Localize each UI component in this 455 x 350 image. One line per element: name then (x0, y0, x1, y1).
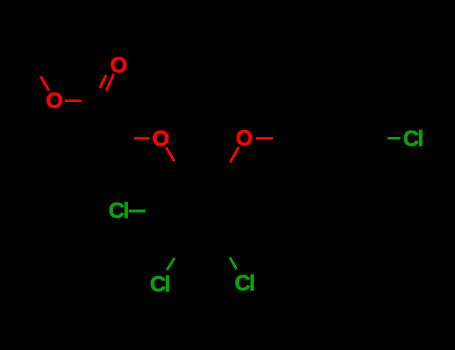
svg-text:Cl: Cl (150, 272, 169, 297)
bond ring2-Cl4 (372, 137, 400, 140)
svg-text:O: O (46, 88, 63, 113)
bond ring-Cl2 (167, 246, 182, 270)
svg-text:O: O (152, 126, 169, 151)
svg-text:Cl: Cl (109, 198, 128, 223)
svg-text:Cl: Cl (403, 126, 422, 151)
bond O3-ring (ether oxygen to ring carbon V1) (166, 148, 182, 175)
bond CH3-O1 (methyl to ester oxygen) (32, 62, 49, 91)
bond O1-C1 (ester oxygen to carbonyl carbon) (65, 100, 98, 103)
bond C1-C2 (carbonyl carbon to methylene) (98, 101, 119, 138)
central benzene ring (trichlorophenyl) (162, 175, 244, 246)
bond ring-O4 (central ring V2 up to ether oxygen) (223, 147, 239, 175)
svg-text:O: O (236, 125, 253, 150)
bond O4-ring2 (ether oxygen to chlorophenyl ring) (256, 137, 290, 140)
bond C2-O3 (methylene to ether oxygen) (119, 137, 149, 140)
bond ring-Cl1 (129, 210, 162, 213)
bond ring-Cl3 (223, 246, 236, 269)
svg-text:Cl: Cl (235, 271, 254, 296)
right benzene ring (4-chlorophenyl) (290, 103, 372, 174)
bond C1=O2 double bond (93, 74, 113, 101)
